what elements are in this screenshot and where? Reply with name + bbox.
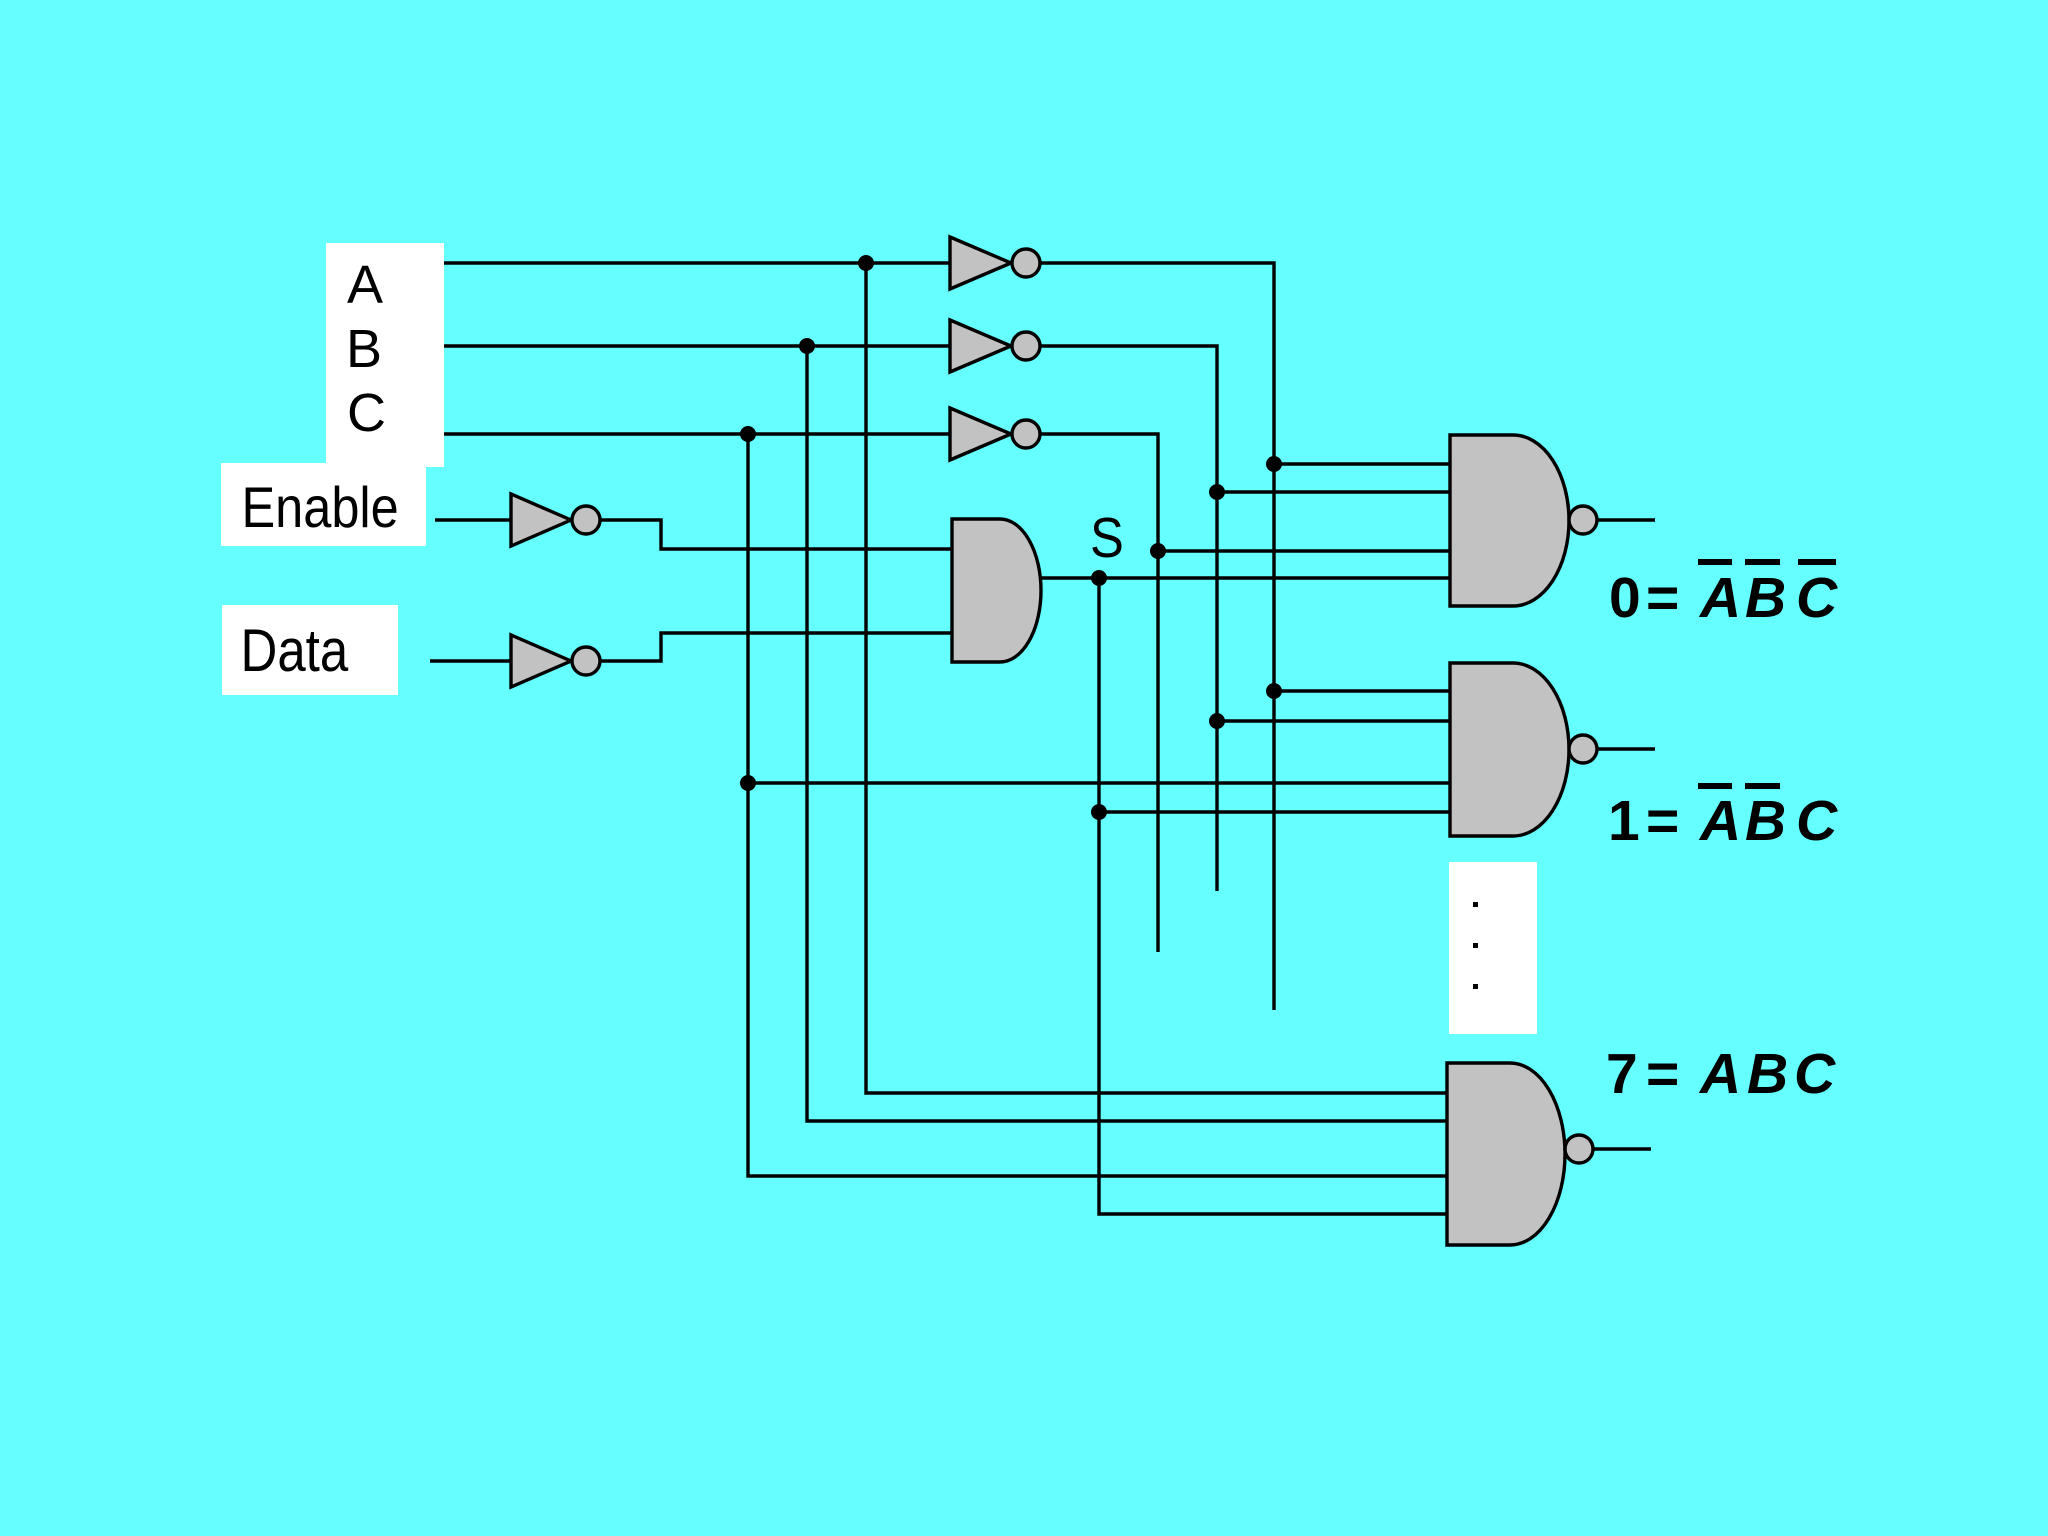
node B junction [799,338,815,354]
node S-to-U5 junction [1091,804,1107,820]
svg-text:0: 0 [1609,566,1641,630]
wire C down to NAND U7 input 3 [748,434,1447,1176]
wire Bbar to NAND U4 input 2 [1217,490,1450,493]
wire A down to NAND U7 input 1 [866,263,1450,1093]
wire Data inverter output to AND U0 input 2 [600,633,952,661]
overbar B (label 1) [1745,783,1780,789]
wire Abar from U1 down [1040,263,1274,1010]
wire Bbar to NAND U5 input 2 [1217,719,1450,722]
wire Abar to NAND U5 input 1 [1274,689,1450,692]
node Bbar-to-U5 junction [1209,713,1225,729]
wire Abar to NAND U4 input 1 [1274,462,1450,465]
node Abar-to-U5 junction [1266,683,1282,699]
NAND gate U4 (output 0) [1450,435,1569,606]
inverter U6 (Enable) [511,494,571,546]
wire Bbar from U2 down [1040,346,1217,891]
ellipsis dots [1473,902,1478,989]
label box Enable [221,463,426,546]
svg-text:A: A [347,255,383,315]
svg-text:Enable: Enable [242,476,399,540]
wire Enable inverter output to AND U0 input 1 [600,520,952,549]
svg-text:7: 7 [1606,1042,1638,1106]
wire C to NAND U5 input 3 [748,781,1450,784]
label 0 = Abar Bbar Cbar [1609,566,1838,630]
svg-text:B: B [1745,789,1786,853]
overbar A (label 1) [1698,783,1732,789]
node Abar-to-U4 junction [1266,456,1282,472]
input label box A B C [326,243,444,467]
NAND gate U7 (output 7) [1447,1063,1565,1245]
label Enable [242,476,399,540]
wire S down to NAND U7 input 4 [1099,578,1447,1214]
wire B from box to inverter U2 [444,344,950,347]
svg-text:A: A [1698,1042,1741,1106]
label 7 = A B C [1606,1042,1836,1106]
inverter U1 (A) [950,237,1011,289]
ellipsis box (gates 2..6 omitted) [1449,862,1537,1034]
label Data [241,617,349,684]
wire output 0 [1597,518,1655,521]
wire S from AND U0 to NAND U4 input 4 [1038,576,1450,579]
svg-text:A: A [1698,566,1741,630]
overbar B (label 0) [1745,559,1780,565]
node Cbar-to-U4 junction [1150,543,1166,559]
node C junction [740,426,756,442]
NAND gate U5 (output 1) [1450,663,1569,836]
node C-to-U5 junction [740,775,756,791]
svg-text:=: = [1646,789,1679,853]
label 1 = Abar Bbar C [1608,789,1838,853]
svg-text:1: 1 [1608,789,1640,853]
wire Data input [430,659,511,662]
svg-text:C: C [1794,1042,1836,1106]
wire B down to NAND U7 input 2 [807,346,1450,1121]
wire Cbar to NAND U4 input 3 [1158,549,1450,552]
svg-text:B: B [346,319,382,379]
AND gate U0 (select) [952,519,1041,662]
wire output 1 [1597,747,1655,750]
wire A from box to inverter U1 [444,261,950,264]
svg-text:=: = [1646,566,1679,630]
overbar C (label 0) [1798,559,1836,565]
svg-text:B: B [1745,566,1786,630]
wire Enable input [435,518,511,521]
svg-text:A: A [1698,789,1741,853]
node Bbar-to-U4 junction [1209,484,1225,500]
node A junction [858,255,874,271]
svg-text:S: S [1090,506,1124,569]
inverter U2 (B) [950,320,1011,372]
node S label [1090,506,1124,569]
svg-text:Data: Data [241,617,349,684]
inverter U3 (C) [950,408,1011,460]
svg-text:C: C [1796,566,1838,630]
svg-text:=: = [1646,1042,1679,1106]
wire C from box to inverter U3 [444,432,950,435]
overbar A (label 0) [1698,559,1732,565]
svg-text:B: B [1747,1042,1788,1106]
svg-text:C: C [1796,789,1838,853]
inverter U8 (Data) [511,635,571,687]
wire output 7 [1593,1147,1651,1150]
svg-text:C: C [347,383,386,443]
label box Data [222,605,398,695]
wire S to NAND U5 input 4 [1099,810,1450,813]
node S junction [1091,570,1107,586]
wire Cbar from U3 down [1040,434,1158,952]
